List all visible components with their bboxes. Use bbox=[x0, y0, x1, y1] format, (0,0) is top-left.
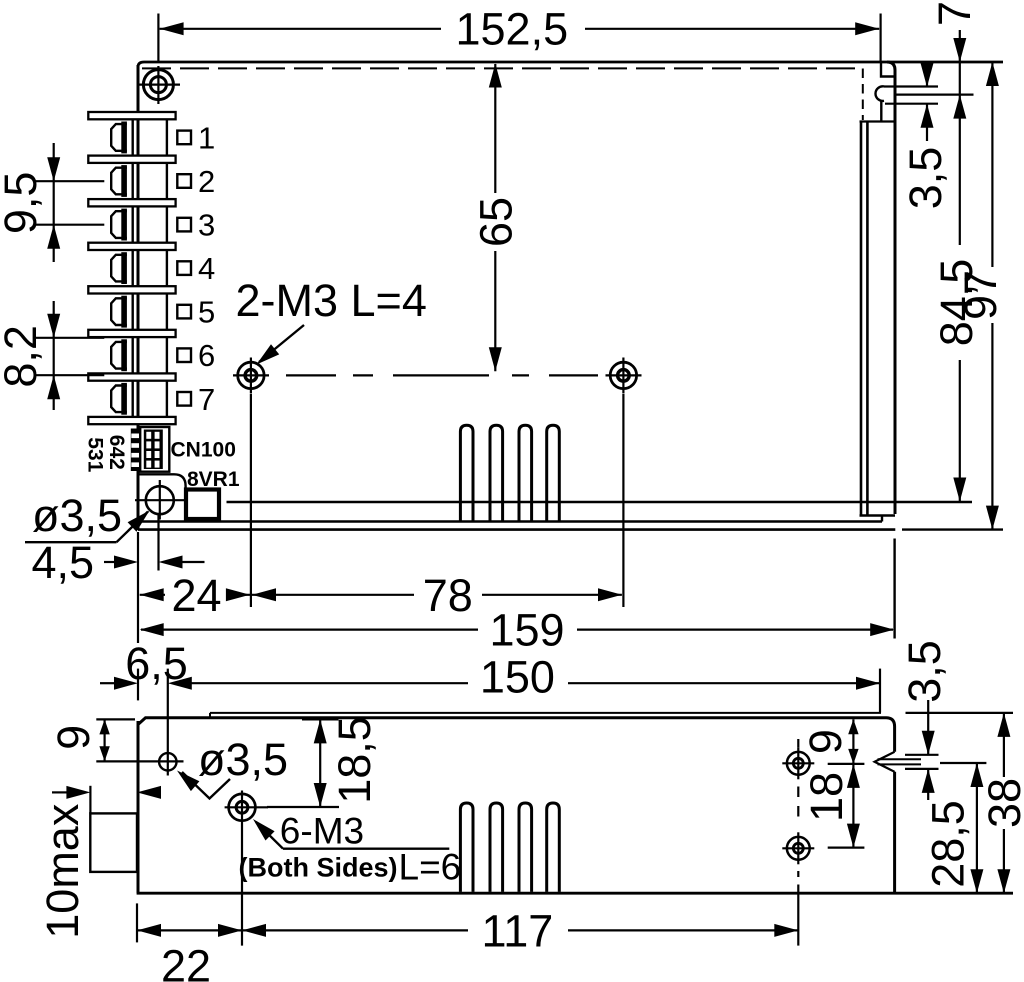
dimension 18,5 bbox=[267, 716, 380, 807]
dimension 18 bbox=[801, 764, 864, 848]
dimension 97 bbox=[955, 62, 1006, 530]
M3 hole 1 top view bbox=[233, 358, 269, 394]
cover side bar left line bbox=[860, 122, 863, 516]
hole centerline vertical bbox=[797, 739, 799, 893]
right edge bbox=[887, 62, 895, 514]
svg-text:2: 2 bbox=[198, 164, 215, 199]
bottom edge line B1 bbox=[138, 520, 882, 523]
svg-text:18: 18 bbox=[801, 772, 852, 822]
centerline dashes bbox=[286, 374, 598, 376]
inner dashed cover corner right bbox=[862, 69, 864, 121]
dimension 84,5 bbox=[931, 95, 982, 502]
svg-text:642: 642 bbox=[105, 435, 128, 470]
left edge bbox=[137, 65, 140, 530]
svg-text:150: 150 bbox=[480, 651, 555, 702]
svg-text:ø3,5: ø3,5 bbox=[32, 490, 122, 541]
svg-text:7: 7 bbox=[198, 382, 215, 417]
terminal cell 6 bbox=[166, 337, 168, 373]
svg-text:38: 38 bbox=[979, 778, 1024, 828]
hole right upper bbox=[782, 747, 814, 779]
label dia 3,5 side with leader bbox=[177, 734, 288, 799]
cover fold step at top right bbox=[881, 62, 894, 77]
svg-text:24: 24 bbox=[171, 570, 221, 621]
dimension 28,5 bbox=[923, 763, 984, 893]
dimension 78 bbox=[252, 570, 622, 621]
dimension 6,5 bbox=[100, 638, 188, 700]
svg-text:97: 97 bbox=[955, 270, 1006, 320]
svg-text:9: 9 bbox=[800, 729, 851, 754]
svg-text:65: 65 bbox=[470, 197, 521, 247]
svg-text:78: 78 bbox=[423, 570, 473, 621]
notch center extension bbox=[940, 762, 986, 764]
dimension 9,5 bbox=[0, 143, 104, 262]
extension line left edge bbox=[137, 532, 139, 643]
svg-text:L=6: L=6 bbox=[399, 847, 462, 888]
svg-text:6: 6 bbox=[198, 338, 215, 373]
svg-text:28,5: 28,5 bbox=[923, 800, 974, 888]
terminal cell 5 bbox=[166, 294, 168, 330]
dimension 3,5 side bbox=[899, 640, 950, 800]
inner dashed cover line top bbox=[142, 67, 857, 69]
dimension 8,2 bbox=[0, 301, 104, 410]
terminal block plates bbox=[88, 112, 175, 424]
cover profile line bbox=[210, 712, 881, 714]
svg-text:18,5: 18,5 bbox=[329, 716, 380, 804]
top view case outline bbox=[138, 62, 1003, 639]
dimension 65 bbox=[470, 64, 521, 372]
right edge extension to 159 dim bbox=[893, 539, 895, 639]
svg-text:7: 7 bbox=[929, 1, 980, 26]
top edge with extension to right bbox=[138, 62, 1003, 67]
label dia 3,5 with leader bbox=[25, 490, 150, 542]
lip line y94.6 bbox=[896, 93, 974, 95]
dimension 152,5 bbox=[158, 4, 880, 62]
svg-text:3,5: 3,5 bbox=[899, 640, 950, 703]
terminal cell 2 bbox=[166, 163, 168, 199]
svg-text:159: 159 bbox=[489, 605, 564, 656]
svg-text:10max: 10max bbox=[37, 803, 88, 939]
svg-text:152,5: 152,5 bbox=[455, 4, 568, 55]
svg-text:3: 3 bbox=[198, 208, 215, 243]
bottom edge notch bbox=[881, 516, 883, 522]
svg-text:1: 1 bbox=[198, 120, 215, 155]
dimension 10max bbox=[37, 786, 161, 939]
dimension 117 bbox=[242, 906, 798, 957]
clip line y103.7 bbox=[885, 103, 938, 105]
M3 hole side view bbox=[225, 791, 268, 946]
extension M3 hole 2 bbox=[622, 394, 624, 607]
svg-text:2-M3 L=4: 2-M3 L=4 bbox=[236, 275, 427, 326]
dimension 150 bbox=[168, 651, 880, 712]
svg-text:4: 4 bbox=[198, 251, 215, 286]
svg-text:9,5: 9,5 bbox=[0, 172, 46, 235]
mounting hole pad bottom-left bbox=[139, 474, 186, 521]
cover fold vertical below clip bbox=[880, 101, 882, 122]
svg-text:5: 5 bbox=[198, 295, 215, 330]
dimension 24 bbox=[140, 570, 250, 621]
dimension 22 bbox=[137, 903, 242, 982]
svg-text:CN100: CN100 bbox=[171, 439, 236, 462]
svg-text:4,5: 4,5 bbox=[32, 537, 95, 588]
side view case outline bbox=[137, 713, 1013, 893]
terminal cell 7 bbox=[166, 381, 168, 417]
dimension 7 bbox=[929, 1, 980, 95]
inner bottom line bbox=[227, 501, 973, 503]
dimension 9 right bbox=[800, 719, 864, 764]
mounting hole top-left bbox=[137, 66, 181, 104]
terminal cell 3 bbox=[166, 206, 168, 242]
component 8VR1 square bbox=[186, 490, 219, 520]
terminal cell 1 bbox=[166, 119, 168, 155]
svg-text:22: 22 bbox=[161, 941, 211, 982]
chassis hole bottom-left bbox=[135, 480, 186, 520]
extension M3 hole 1 bbox=[250, 394, 252, 607]
dimension 159 bbox=[140, 605, 895, 656]
dimension 3,5 top right bbox=[900, 61, 951, 209]
svg-text:9: 9 bbox=[48, 725, 99, 750]
label 6-M3 (Both Sides) L=6 with leader bbox=[239, 811, 462, 888]
dimension 9 left bbox=[48, 719, 135, 761]
svg-text:8,2: 8,2 bbox=[0, 325, 46, 388]
right edge notch bbox=[875, 752, 895, 772]
cover side bar bottom bbox=[860, 514, 896, 516]
dimension 4,5 bbox=[32, 515, 205, 588]
svg-text:3,5: 3,5 bbox=[900, 147, 951, 210]
M3 hole 2 top view bbox=[606, 358, 642, 394]
label 2-M3 L=4 with leader bbox=[236, 275, 427, 364]
cover side bar top bbox=[860, 120, 895, 122]
svg-text:ø3,5: ø3,5 bbox=[198, 734, 288, 785]
bottom edge line B2 bbox=[138, 528, 895, 531]
cover clip hook bbox=[875, 86, 884, 101]
bottom edge B2 extension right bbox=[902, 528, 1003, 530]
svg-text:117: 117 bbox=[482, 906, 554, 957]
clip line y86.5 bbox=[884, 85, 938, 87]
dimension 38 bbox=[906, 713, 1024, 893]
chassis hole side front bbox=[96, 669, 183, 776]
terminal pin squares and numbers 1-7 bbox=[177, 120, 215, 416]
svg-text:6-M3: 6-M3 bbox=[280, 811, 364, 852]
vent slots side view bbox=[460, 803, 559, 892]
svg-text:(Both Sides): (Both Sides) bbox=[239, 853, 398, 883]
vent slots top view bbox=[460, 425, 559, 521]
hole right lower bbox=[782, 832, 814, 864]
svg-text:8VR1: 8VR1 bbox=[187, 468, 240, 491]
cover side bar right line bbox=[866, 122, 869, 516]
terminal block profile bbox=[90, 813, 137, 872]
terminal cells with screws bbox=[111, 119, 167, 417]
connector CN100 bbox=[131, 427, 170, 472]
svg-text:531: 531 bbox=[84, 437, 107, 472]
terminal cell 4 bbox=[166, 250, 168, 286]
